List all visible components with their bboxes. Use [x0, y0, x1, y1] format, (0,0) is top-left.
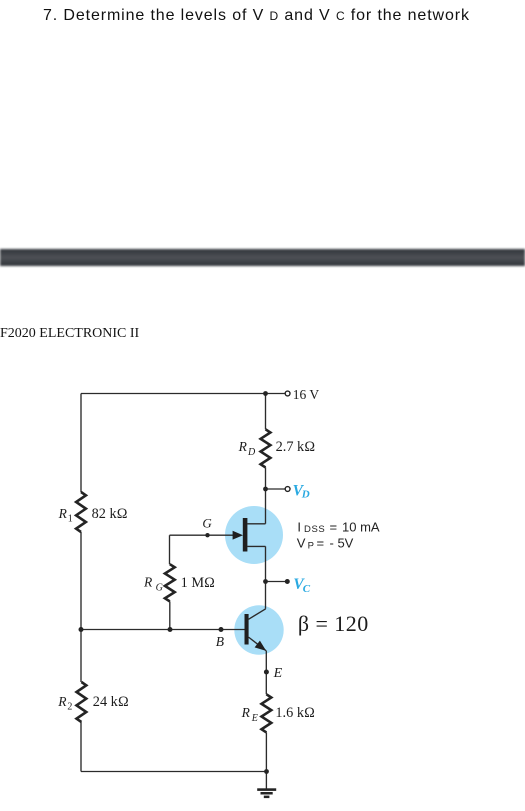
svg-text:1.6 kΩ: 1.6 kΩ	[275, 705, 315, 721]
svg-text:10 mA: 10 mA	[342, 520, 380, 535]
svg-text:D: D	[247, 447, 256, 458]
svg-text:R: R	[58, 506, 68, 521]
svg-text:I: I	[297, 520, 301, 535]
svg-text:=: =	[317, 535, 325, 550]
svg-text:B: B	[216, 634, 224, 649]
svg-text:1: 1	[68, 514, 73, 525]
svg-text:R: R	[238, 439, 248, 454]
svg-text:=: =	[330, 520, 338, 535]
svg-text:V: V	[297, 535, 306, 550]
svg-text:R: R	[57, 694, 67, 709]
svg-text:- 5V: - 5V	[330, 535, 354, 550]
svg-text:E: E	[273, 666, 283, 681]
svg-text:24 kΩ: 24 kΩ	[93, 694, 129, 710]
svg-text:E: E	[251, 713, 258, 724]
svg-text:2.7 kΩ: 2.7 kΩ	[276, 439, 316, 455]
svg-text:16 V: 16 V	[293, 387, 320, 402]
svg-text:R: R	[241, 705, 251, 720]
svg-text:D: D	[301, 489, 310, 501]
svg-text:G: G	[156, 583, 163, 594]
svg-text:1 MΩ: 1 MΩ	[181, 575, 215, 591]
svg-text:2: 2	[67, 702, 72, 713]
svg-text:82 kΩ: 82 kΩ	[92, 506, 128, 522]
svg-text:R: R	[143, 575, 153, 590]
svg-text:β = 120: β = 120	[298, 611, 369, 636]
svg-text:G: G	[202, 515, 212, 530]
svg-text:C: C	[303, 583, 311, 595]
svg-text:DSS: DSS	[304, 524, 325, 535]
svg-text:P: P	[308, 541, 314, 552]
